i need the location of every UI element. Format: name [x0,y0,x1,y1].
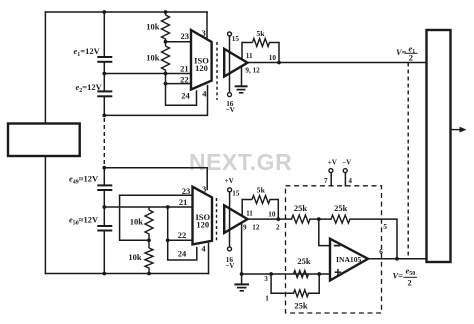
terminal +V U3 [329,169,333,173]
resistor R7 25k input [292,215,311,223]
node R9 right junction [317,272,321,276]
svg-text:6: 6 [379,248,383,256]
svg-text:+V: +V [328,159,338,167]
node pin22 [164,82,168,86]
svg-text:24: 24 [178,249,187,259]
node pin21 U2 [166,205,170,209]
wire E2 to node B [103,97,105,115]
svg-text:10k: 10k [146,53,160,63]
wire pin22 U1 [166,83,192,85]
svg-text:5k: 5k [257,186,266,195]
svg-text:120: 120 [195,63,208,73]
wire +V to pin7 [330,173,332,186]
svg-text:11: 11 [246,52,253,60]
svg-text:120: 120 [196,220,209,230]
svg-text:22: 22 [180,75,189,85]
svg-text:2: 2 [408,277,412,287]
wire -V to pin4 [344,173,346,186]
svg-text:25k: 25k [294,301,308,311]
node R4 bottom rail [147,272,151,276]
wire feedback down A1 [278,43,280,63]
terminal -V U3 [343,169,347,173]
wire feedback tap A1 [241,43,243,60]
wire R8 to pin5 jumper [350,219,397,259]
output arrow [451,127,467,133]
resistor R1 10k [162,12,170,42]
svg-text:9: 9 [243,224,247,232]
op-amp A2 output stage U2 [224,205,247,233]
svg-text:4: 4 [201,243,206,253]
wire node C to E49 [103,168,105,185]
wire pin21 U2 [104,206,192,208]
svg-text:4: 4 [348,177,352,185]
battery cell E1 [97,57,112,62]
wire output channel 1 [248,62,427,64]
node D junction e49/e50 [102,205,106,209]
svg-text:10: 10 [269,54,277,62]
svg-text:NEXT.GR: NEXT.GR [189,149,292,175]
iso amp U2 ISO120 [193,187,213,245]
wire pin3 U2 from node C [104,168,207,190]
svg-text:15: 15 [232,35,240,43]
node 3 junction [269,272,273,276]
svg-text:7: 7 [324,177,328,185]
svg-text:15: 15 [232,190,240,198]
node top rail divider [164,10,168,14]
wire pin23 U2 [120,194,193,196]
wire pin21 to pin22 link [165,74,167,84]
terminal pin15 A2 [228,188,232,192]
svg-text:V=: V= [396,47,407,57]
isolation barrier U2 dashed [216,198,218,242]
terminal pin15 A1 [228,32,232,36]
node B junction e2/e49 [102,114,106,118]
resistor R9 25k [294,271,309,278]
node output A1 [277,61,281,65]
wire dashed battery continuation [103,118,105,166]
wire feedback tap A2 [241,200,243,216]
wire pin24 loop U1 [166,84,197,106]
wire pin4 U2 to bottom rail [208,244,210,274]
wire noninverting input [242,273,330,275]
svg-text:−V: −V [342,159,352,167]
plus input mark U3 [335,269,342,276]
svg-text:23: 23 [181,31,190,41]
svg-text:22: 22 [178,230,187,240]
node ground junction [240,272,244,276]
terminal pin16 A1 [228,93,232,97]
svg-text:24: 24 [181,91,190,101]
svg-text:9, 12: 9, 12 [245,66,260,74]
svg-text:INA105: INA105 [336,255,362,264]
svg-text:5: 5 [383,223,387,231]
wire pin15 to pin16 A2 [229,192,231,247]
wire pin4 U1 to node B [104,86,207,116]
wire E50 to bottom rail [103,231,105,273]
node battery top [102,10,106,14]
wire output A2 to R7 [248,218,292,220]
node R2 bottom [164,72,168,76]
wire pin22 U2 [168,239,193,241]
wire pin3 U1 from top rail [206,12,208,38]
resistor R2 10k [162,42,170,74]
svg-text:10: 10 [268,211,276,219]
wire top rail [45,11,207,13]
svg-text:+V: +V [225,177,235,185]
resistor R5 5k feedback A1 [242,39,279,47]
ground stub A2 [241,223,243,274]
iso amp U1 ISO120 [191,30,212,90]
label output V=e1/2 [396,44,418,63]
multiplexer block [427,30,451,262]
isolation barrier U1 dashed [216,42,218,100]
resistor R6 5k feedback A2 [242,196,278,204]
minus input mark U3 [334,245,341,247]
svg-text:3: 3 [264,275,268,283]
wire R10 parallel loop [271,274,293,293]
svg-text:2: 2 [276,223,280,231]
wire R7 to R8 [310,218,331,220]
label output V=e50/2 [393,266,418,288]
node divider tap U2 [147,238,151,242]
wire E1 to node [103,63,105,91]
ground A2 [234,284,249,290]
wire left rail upper [44,12,46,124]
wire pin21 U1 [104,73,191,75]
svg-text:12: 12 [252,224,260,232]
resistor R3 10k [145,207,153,240]
load box [8,124,80,157]
wire battery stack top segment [103,12,105,56]
wire dashed channels [407,63,409,259]
wire output U3 channel 50 [368,258,427,260]
battery cell E49 [97,185,112,190]
svg-text:2: 2 [409,53,413,63]
terminal pin16 A2 [228,247,232,251]
battery cell E50 [97,226,112,231]
svg-text:11: 11 [246,209,253,217]
node output A2 [276,217,280,221]
wire feedback down A2 [277,200,279,220]
node C top of e49 [102,166,106,170]
node bottom rail battery [102,272,106,276]
wire pin23 tap link U2 [120,195,149,240]
node inverting junction [317,217,321,221]
node pin22 U2 [166,238,170,242]
wire inverting input [319,219,330,246]
ground A1 [235,86,248,93]
resistor R8 25k feedback [331,215,350,223]
svg-text:25k: 25k [297,256,311,266]
node divider tap [164,40,168,44]
wire bottom rail [45,273,208,275]
wire pin24 loop U2 [168,240,197,260]
wire E49 to node D [103,191,105,226]
svg-text:25k: 25k [294,203,308,213]
svg-text:21: 21 [179,197,188,207]
INA105 dashed box [286,186,382,313]
svg-text:10k: 10k [146,22,160,32]
svg-text:−V: −V [225,262,235,270]
svg-text:25k: 25k [334,203,348,213]
op-amp A1 output stage U1 [224,49,247,77]
svg-text:1: 1 [265,294,269,302]
svg-text:10k: 10k [128,252,142,262]
wire pin23 U1 [166,41,192,43]
resistor R4 10k [145,240,153,273]
op-amp U3 INA105 [330,239,368,281]
svg-text:23: 23 [182,186,191,196]
svg-text:V=: V= [393,271,404,281]
wire R10 up to node [309,274,320,293]
svg-text:21: 21 [180,64,189,74]
svg-text:5k: 5k [256,29,265,38]
wire pin15 to pin16 A1 [229,36,231,93]
ground stub A1 [241,67,243,87]
node A junction e1/e2 [102,72,106,76]
svg-text:−V: −V [226,106,236,114]
wire left rail lower [44,156,46,274]
node pin5 pin6 junction [395,257,399,261]
battery cell E2 [97,91,112,96]
wire ground junction down [241,274,243,284]
wire pin21 to pin22 link U2 [167,207,169,240]
resistor R10 25k [294,290,309,297]
svg-text:10k: 10k [130,217,144,227]
